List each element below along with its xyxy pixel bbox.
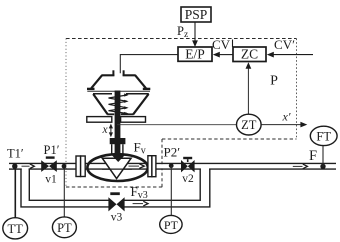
- system boundary right dotted edge: [296, 39, 298, 140]
- tick near CV: [232, 40, 234, 48]
- transmitter PT2: [160, 215, 182, 233]
- svg-text:PT: PT: [57, 221, 72, 235]
- flow arrow right pipe: [293, 165, 303, 167]
- svg-text:ZT: ZT: [241, 118, 257, 132]
- arrow PSP to E/P: [194, 23, 196, 42]
- main pipe bottom line segment 2: [29, 168, 201, 170]
- svg-text:v1: v1: [45, 174, 57, 186]
- stem coupling block: [110, 138, 126, 144]
- transmitter ZT: [237, 114, 262, 135]
- svg-text:PSP: PSP: [185, 7, 208, 22]
- op box E/P: [178, 47, 212, 61]
- actuator lower casing bottom edge: [107, 113, 114, 115]
- arrow ZC to E/P: [218, 54, 233, 56]
- actuator diaphragm line: [87, 90, 150, 92]
- FT stem line: [322, 145, 324, 166]
- hand valve v1: [46, 156, 55, 158]
- actuator spring: [109, 95, 128, 114]
- valve stem bar: [115, 91, 121, 155]
- valve plug triangle: [102, 158, 131, 178]
- svg-text:TT: TT: [8, 222, 24, 236]
- hand valve v2: [183, 157, 192, 159]
- svg-text:T1′: T1′: [7, 147, 24, 161]
- actuator lower casing slants: [93, 94, 107, 114]
- bypass branch left inner line: [29, 169, 109, 201]
- bypass right segment top line: [124, 169, 200, 201]
- bonnet lines: [111, 144, 113, 154]
- system boundary top dashed edge: [66, 38, 297, 40]
- TT stem line: [14, 169, 16, 218]
- controller box ZC: [233, 47, 266, 62]
- bypass right segment bottom line: [124, 169, 210, 207]
- svg-text:FT: FT: [316, 129, 331, 143]
- svg-text:F: F: [309, 148, 317, 164]
- right flange pair: [148, 156, 152, 177]
- PT2 stem line: [170, 166, 172, 216]
- actuator upper casing top flats: [102, 74, 115, 76]
- transmitter TT: [3, 218, 28, 239]
- svg-text:CV: CV: [212, 37, 231, 52]
- svg-text:v2: v2: [182, 173, 194, 185]
- pipe interior patch over jog: [158, 164, 166, 168]
- position link line stem to ZT: [117, 124, 237, 126]
- system boundary bottom-left dashed edge: [66, 186, 163, 188]
- actuator supply line from E/P: [120, 55, 178, 74]
- PSP box: [181, 7, 211, 22]
- arrow ZT to x' output: [261, 124, 301, 126]
- actuator yoke plate right: [121, 117, 146, 123]
- arrow CV' into ZC: [272, 54, 313, 56]
- actuator upper casing feet: [87, 88, 95, 90]
- actuator lower casing top edge: [93, 93, 112, 95]
- valve body Fv ellipse: [87, 154, 147, 181]
- stem travel double arrow: [110, 126, 112, 135]
- svg-text:x: x: [101, 124, 108, 136]
- main pipe top line: [9, 162, 336, 164]
- system boundary jog dashed edge: [161, 139, 163, 187]
- svg-text:P2′: P2′: [164, 145, 181, 160]
- junction dot T1 tap: [12, 164, 17, 169]
- stem arrowhead onto plug: [111, 154, 126, 162]
- main pipe bottom line segment 3: [209, 168, 336, 170]
- svg-text:x′: x′: [282, 110, 291, 124]
- bypass branch left outer line: [21, 169, 109, 207]
- system boundary left dotted edge: [65, 39, 67, 188]
- junction dot P2 tap: [169, 163, 174, 168]
- svg-text:CV′: CV′: [274, 37, 295, 52]
- svg-text:v3: v3: [111, 212, 123, 224]
- hand valve v3: [110, 192, 120, 195]
- arrow ZT to ZC: [247, 68, 249, 115]
- flow arrow left pipe: [22, 165, 30, 167]
- actuator yoke plate left: [87, 117, 112, 123]
- junction dot F tap: [320, 164, 325, 169]
- actuator upper casing collar stubs: [112, 70, 114, 76]
- transmitter PT1: [52, 217, 76, 238]
- left flange pair: [76, 156, 81, 177]
- PT1 stem line: [63, 169, 65, 217]
- actuator upper casing slants: [91, 75, 102, 88]
- flow arrow in valve body: [129, 165, 140, 167]
- junction dot P1 tap: [62, 164, 67, 169]
- transmitter FT: [310, 126, 337, 145]
- flow arrow bypass: [133, 203, 143, 205]
- svg-text:PT: PT: [164, 218, 179, 232]
- svg-text:E/P: E/P: [185, 47, 205, 62]
- main pipe bottom line segment 1: [9, 168, 22, 170]
- svg-text:P: P: [270, 74, 278, 89]
- svg-text:P1′: P1′: [44, 143, 60, 157]
- svg-text:ZC: ZC: [241, 47, 258, 62]
- system boundary bottom-right dashed edge: [162, 138, 297, 140]
